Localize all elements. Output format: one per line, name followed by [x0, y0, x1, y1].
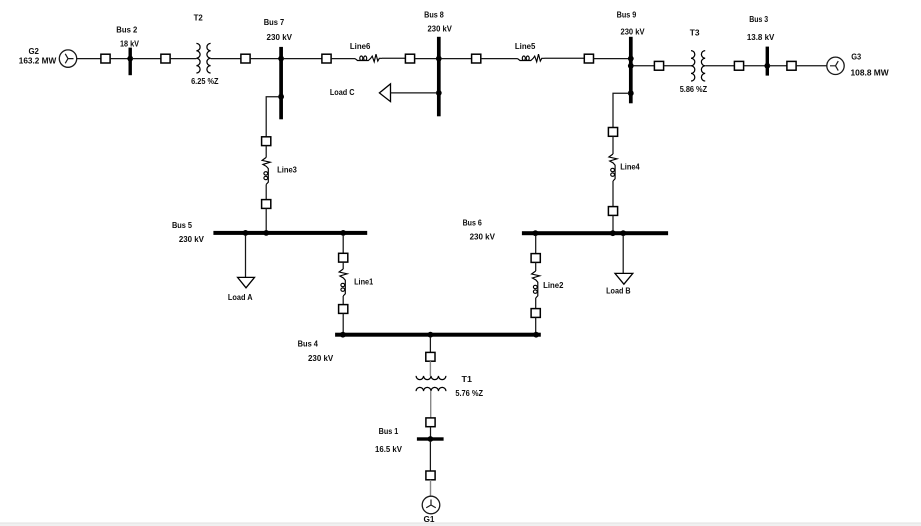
svg-text:230 kV: 230 kV — [470, 232, 496, 242]
line Line5 impedance — [518, 54, 545, 62]
breaker square — [584, 54, 593, 63]
svg-text:163.2 MW: 163.2 MW — [19, 55, 57, 65]
wire — [612, 215, 614, 231]
wire — [429, 441, 431, 471]
wire — [429, 361, 431, 376]
svg-text:Line6: Line6 — [350, 41, 371, 51]
svg-text:6.25 %Z: 6.25 %Z — [191, 76, 219, 86]
wire — [132, 58, 161, 60]
wire — [535, 235, 537, 253]
svg-text:Bus 7: Bus 7 — [264, 17, 285, 27]
breaker square — [734, 61, 743, 70]
svg-text:230 kV: 230 kV — [621, 27, 645, 37]
junction on Bus 8 — [436, 56, 442, 62]
svg-text:230 kV: 230 kV — [267, 32, 293, 42]
svg-text:T1: T1 — [462, 374, 473, 384]
transformer T3 — [691, 51, 705, 81]
bus Bus 9 — [629, 37, 633, 104]
bus Bus 8 — [437, 37, 441, 117]
wire — [664, 65, 691, 67]
bottom window strip — [0, 523, 921, 526]
load Load A arrow — [238, 277, 255, 287]
junction on Bus 1 — [428, 436, 434, 442]
wire Bus7 to Line3 jog — [266, 97, 279, 137]
junction on Bus 9 line5 — [628, 56, 634, 62]
wire — [535, 298, 537, 309]
svg-text:Line5: Line5 — [515, 41, 536, 51]
breaker square — [161, 54, 170, 63]
breaker square — [654, 61, 663, 70]
svg-text:5.86 %Z: 5.86 %Z — [680, 84, 708, 94]
junction Bus 6 line2 — [533, 230, 539, 236]
wire — [594, 58, 630, 60]
wire — [441, 58, 472, 60]
wire — [170, 58, 196, 60]
breaker square — [608, 207, 617, 216]
wire — [535, 262, 537, 271]
wire — [342, 313, 344, 333]
breaker square — [426, 418, 435, 427]
wire — [796, 65, 827, 67]
breaker square — [339, 253, 348, 262]
wire — [535, 317, 537, 333]
junction Bus 4 line2 — [533, 332, 539, 338]
wire Load C — [391, 92, 438, 94]
wire — [430, 427, 432, 438]
transformer T2 — [196, 43, 210, 73]
wire — [342, 235, 344, 253]
svg-text:230 kV: 230 kV — [428, 24, 452, 34]
load Load C arrow — [379, 84, 390, 102]
bus Bus 7 — [279, 47, 283, 119]
svg-text:G3: G3 — [851, 52, 861, 62]
svg-text:Line4: Line4 — [620, 161, 640, 171]
line Line4 impedance — [609, 154, 617, 181]
wire — [430, 480, 432, 497]
breaker square — [405, 54, 414, 63]
svg-text:Load A: Load A — [228, 292, 253, 302]
wire — [331, 58, 355, 60]
bus Bus 2 — [129, 48, 132, 76]
breaker square — [262, 137, 271, 146]
wire — [705, 65, 734, 67]
breaker square — [426, 352, 435, 361]
svg-text:18 kV: 18 kV — [120, 39, 139, 49]
transformer T1 — [416, 376, 446, 391]
svg-text:Bus 3: Bus 3 — [749, 14, 768, 24]
wire — [612, 136, 614, 154]
bus Bus 4 — [335, 333, 541, 337]
svg-text:13.8 kV: 13.8 kV — [747, 32, 775, 42]
junction on Bus 2 — [127, 56, 133, 62]
breaker square — [339, 305, 348, 314]
wire — [769, 65, 787, 67]
bus Bus 1 — [417, 437, 444, 440]
svg-text:Line3: Line3 — [277, 165, 297, 175]
breaker square — [472, 54, 481, 63]
wire — [265, 208, 267, 231]
svg-text:Bus 2: Bus 2 — [116, 25, 137, 35]
junction Bus 4 line1 — [340, 332, 346, 338]
wire — [283, 58, 322, 60]
svg-text:Line1: Line1 — [354, 276, 373, 286]
svg-text:Bus 5: Bus 5 — [172, 220, 192, 230]
wire — [211, 58, 241, 60]
svg-text:230 kV: 230 kV — [308, 353, 333, 363]
wire — [110, 58, 128, 60]
wire — [342, 296, 344, 305]
breaker square — [241, 54, 250, 63]
svg-text:5.76 %Z: 5.76 %Z — [455, 388, 483, 398]
wire — [481, 58, 518, 60]
svg-text:T2: T2 — [194, 13, 203, 23]
junction Bus 5 line3 — [263, 230, 269, 236]
generator G3 — [827, 57, 844, 74]
junction Bus 7 branch — [278, 94, 284, 100]
breaker square — [531, 309, 540, 318]
junction on Bus 3 — [764, 63, 770, 69]
wire — [250, 58, 279, 60]
wire — [612, 181, 614, 207]
generator G2 — [59, 50, 76, 67]
junction Bus 6 line4 — [610, 230, 616, 236]
svg-text:230 kV: 230 kV — [179, 234, 204, 244]
wire — [429, 337, 431, 353]
breaker square — [531, 254, 540, 263]
wire — [430, 391, 432, 418]
bus Bus 5 — [213, 231, 367, 235]
svg-text:Line2: Line2 — [543, 280, 563, 290]
wire — [265, 146, 267, 158]
svg-text:Load C: Load C — [330, 87, 355, 97]
wire — [415, 58, 437, 60]
breaker square — [608, 127, 617, 136]
load Load B arrow — [615, 273, 633, 284]
line Line3 impedance — [262, 157, 270, 184]
svg-text:16.5 kV: 16.5 kV — [375, 444, 402, 454]
wire — [265, 184, 267, 199]
junction Bus 5 load — [243, 230, 249, 236]
wire — [744, 65, 766, 67]
wire Load A — [245, 235, 247, 278]
line Line2 impedance — [532, 271, 540, 298]
junction Bus 9 branch — [628, 90, 634, 96]
breaker square — [426, 471, 435, 480]
bus Bus 3 — [766, 47, 769, 76]
wire Bus9 to Line4 jog — [613, 93, 629, 127]
breaker square — [262, 200, 271, 209]
svg-text:T3: T3 — [690, 28, 700, 38]
breaker square — [322, 54, 331, 63]
line Line6 impedance — [355, 54, 382, 62]
junction Bus 5 line1 — [340, 230, 346, 236]
svg-text:Bus 6: Bus 6 — [463, 217, 482, 227]
generator G1 — [422, 496, 440, 514]
wire — [545, 57, 585, 59]
junction Bus 8 load tap — [436, 90, 442, 96]
breaker square — [101, 54, 110, 63]
svg-text:Load B: Load B — [606, 286, 631, 296]
svg-text:Bus 9: Bus 9 — [617, 10, 637, 20]
wire — [633, 65, 655, 67]
junction on Bus 7 — [278, 56, 284, 62]
svg-text:Bus 4: Bus 4 — [298, 339, 318, 349]
junction on Bus 9 T3 — [628, 63, 634, 69]
junction Bus 6 load — [620, 230, 626, 236]
wire — [382, 57, 405, 59]
breaker square — [787, 61, 796, 70]
bus Bus 6 — [522, 231, 668, 235]
junction Bus 4 T1 — [428, 332, 434, 338]
wire Load B — [622, 235, 624, 273]
wire — [77, 58, 101, 60]
line Line1 impedance — [339, 269, 347, 296]
svg-text:Bus 1: Bus 1 — [379, 426, 399, 436]
svg-text:108.8 MW: 108.8 MW — [851, 68, 890, 78]
svg-text:Bus 8: Bus 8 — [424, 10, 444, 20]
wire — [342, 262, 344, 269]
